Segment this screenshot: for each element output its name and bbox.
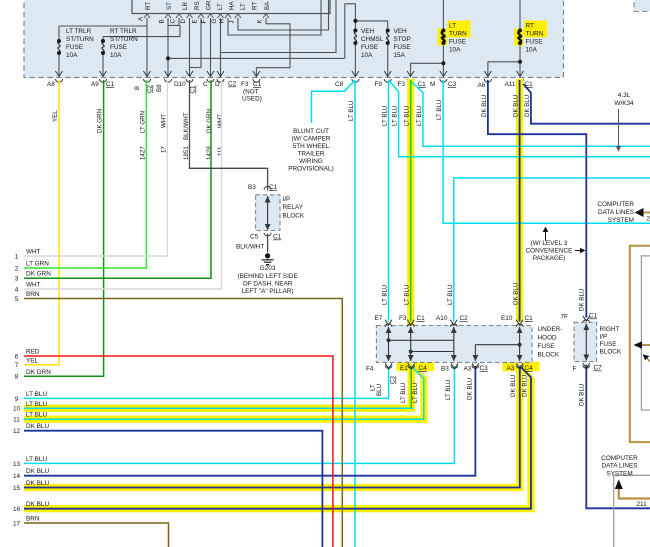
underhood fuse block internal arrowheads xyxy=(386,327,523,362)
wire DK BLU row 12 down off page bottom xyxy=(24,431,322,547)
rotated wire color labels, top section xyxy=(52,95,531,160)
svg-text:17: 17 xyxy=(160,146,167,153)
small annotation arrow at module box corner xyxy=(646,358,650,362)
left row callout numbers xyxy=(13,253,21,527)
svg-text:F3: F3 xyxy=(398,81,406,88)
wire LT TURN fuse feed riser from image top xyxy=(442,0,444,31)
svg-text:211: 211 xyxy=(637,501,648,508)
svg-text:10A: 10A xyxy=(449,47,461,54)
svg-text:C2: C2 xyxy=(228,81,237,88)
svg-text:B8: B8 xyxy=(156,84,163,92)
wire BLK/WHT pin D10 to I/P relay block B3 xyxy=(190,80,268,191)
wire RED row 6 down off page bottom xyxy=(24,356,333,547)
svg-text:M: M xyxy=(430,81,435,88)
svg-text:LT BLU: LT BLU xyxy=(382,285,389,305)
svg-text:LT BLU: LT BLU xyxy=(26,401,47,408)
svg-text:COMPUTER: COMPUTER xyxy=(597,201,634,208)
svg-text:F3: F3 xyxy=(399,315,407,322)
svg-text:I/P: I/P xyxy=(283,196,291,203)
svg-text:BRN: BRN xyxy=(26,516,40,523)
turn/hazard switch box (top, cut off by image edge) xyxy=(132,0,330,14)
svg-text:RIGHT: RIGHT xyxy=(600,326,620,333)
blunt cut annotation text xyxy=(288,128,333,173)
svg-text:DK BLU: DK BLU xyxy=(524,95,531,117)
svg-text:C1: C1 xyxy=(253,81,262,88)
svg-text:CHMSL: CHMSL xyxy=(361,36,384,43)
right I/P fuse block pin arrowhead and half-circle bottom xyxy=(583,363,590,369)
svg-text:3: 3 xyxy=(15,276,19,283)
highlight band E1 column to row 10 xyxy=(408,366,415,412)
svg-text:B3: B3 xyxy=(441,366,449,373)
svg-text:RED: RED xyxy=(26,349,40,356)
svg-text:A10: A10 xyxy=(436,315,448,322)
svg-text:WHT: WHT xyxy=(160,114,167,128)
wire stop-feed bus from pin B junction to right riser xyxy=(168,57,345,59)
highlighted label RT TURN FUSE xyxy=(524,21,547,38)
wire BRN row 5 down off page bottom xyxy=(24,299,342,547)
svg-text:E10: E10 xyxy=(501,315,513,322)
highlight band A3 branch column to row 16 xyxy=(527,378,534,512)
svg-text:COMPUTER: COMPUTER xyxy=(601,455,638,462)
svg-text:G: G xyxy=(211,19,218,24)
svg-text:LT BLU: LT BLU xyxy=(348,101,355,121)
svg-text:DK BLU: DK BLU xyxy=(522,375,529,397)
ground G203 symbol xyxy=(262,253,274,264)
yellow highlighter bands xyxy=(24,79,540,512)
svg-text:D: D xyxy=(180,19,187,24)
svg-text:C1: C1 xyxy=(417,315,426,322)
highlighted fuse element LT TURN FUSE (bold, yellow marker) xyxy=(438,29,448,46)
wire stop-feed riser to VEH CHMSL / VEH STOP fuses xyxy=(345,4,356,59)
wire DK BLU underhood A3/C3 to row 14 xyxy=(24,366,475,476)
svg-text:J: J xyxy=(229,20,236,23)
svg-text:DK BLU: DK BLU xyxy=(578,384,585,406)
fuse element VEH STOP FUSE 15A xyxy=(387,31,389,44)
wire switch pin D down to connector pin D10 (ground) xyxy=(189,18,191,76)
svg-text:C3: C3 xyxy=(390,376,397,384)
wire LT BLU from pin C8 down entire page xyxy=(354,80,356,547)
svg-text:BLOCK: BLOCK xyxy=(600,349,622,356)
svg-text:DK GRN: DK GRN xyxy=(26,271,51,278)
svg-text:C3: C3 xyxy=(480,365,489,372)
fuse element RT TRLR ST/TURN FUSE 10A xyxy=(102,41,104,53)
svg-text:FUSE: FUSE xyxy=(600,341,617,348)
svg-text:GR: GR xyxy=(206,0,213,10)
svg-text:FUSE: FUSE xyxy=(361,44,378,51)
svg-text:F: F xyxy=(201,20,208,24)
junction dot RT TURN fuse output xyxy=(518,60,522,64)
bottom edge connector half-circles xyxy=(385,365,392,368)
svg-text:(NOT: (NOT xyxy=(243,89,259,96)
fuse element LT TRLR ST/TURN FUSE 10A xyxy=(58,31,389,54)
svg-text:E: E xyxy=(192,19,199,23)
svg-text:ST/TURN: ST/TURN xyxy=(110,36,138,43)
wire switch pin H up-and-over riser to image top xyxy=(228,0,321,35)
svg-text:LT TRLR: LT TRLR xyxy=(66,28,92,35)
svg-text:USED): USED) xyxy=(242,96,262,103)
svg-text:E7: E7 xyxy=(375,315,383,322)
svg-text:A6: A6 xyxy=(478,82,486,89)
svg-text:DK BLU: DK BLU xyxy=(26,480,49,487)
switch box rotated pin-name label stubs (cut off at top) xyxy=(145,0,271,10)
svg-text:LT: LT xyxy=(240,3,247,10)
wire DK GRN pin C to row 3 xyxy=(24,80,211,278)
wire BRN row 17 down off page bottom xyxy=(24,523,169,547)
wire LT BLU pin F9 to underhood E7 xyxy=(388,80,390,322)
connector half-circle symbols below boundary xyxy=(56,79,63,82)
svg-text:C2: C2 xyxy=(147,85,154,93)
I/P relay block bottom connector labels C5 / C1 xyxy=(250,234,282,241)
svg-text:D10: D10 xyxy=(174,81,186,88)
svg-text:C1: C1 xyxy=(525,315,534,322)
w/ level 3 convenience package annotation xyxy=(526,240,573,262)
wire LT BLU (appears green under highlighter) underhood E1 down to row 10 xyxy=(410,366,412,408)
svg-text:FUSE: FUSE xyxy=(526,39,543,46)
svg-text:LT BLU: LT BLU xyxy=(445,380,452,400)
svg-text:DK BLU: DK BLU xyxy=(26,468,49,475)
svg-text:YEL: YEL xyxy=(26,357,39,364)
wire DK BLU underhood A3 branch to row 16 (highlighted) xyxy=(24,366,531,509)
svg-text:HOOD: HOOD xyxy=(538,335,558,342)
svg-text:LT BLU: LT BLU xyxy=(447,285,454,305)
svg-text:12: 12 xyxy=(13,428,21,435)
svg-text:13: 13 xyxy=(13,461,21,468)
svg-text:LEFT "A" PILLAR): LEFT "A" PILLAR) xyxy=(242,288,294,295)
connector pin name labels below dashed boundary xyxy=(47,81,533,103)
wire switch pin B down to connector pin B8 xyxy=(167,18,169,76)
svg-text:RT TRLR: RT TRLR xyxy=(110,28,137,35)
wire VEH CHMSL fuse feed to VEH STOP fuse feed xyxy=(355,20,387,22)
svg-text:FUSE: FUSE xyxy=(66,44,83,51)
wire DK GRN pin A9 to row 8 xyxy=(24,80,104,376)
svg-text:OF DASH. NEAR: OF DASH. NEAR xyxy=(243,281,293,288)
svg-text:LT BLU: LT BLU xyxy=(26,391,47,398)
svg-text:ST/TURN: ST/TURN xyxy=(66,36,94,43)
svg-text:C8: C8 xyxy=(335,81,344,88)
svg-text:RT: RT xyxy=(145,2,152,10)
svg-text:FUSE: FUSE xyxy=(538,343,555,350)
svg-text:FUSE: FUSE xyxy=(110,44,127,51)
wire RT TRLR fuse leads: feed from pin C jog, output to pin A9 xyxy=(102,37,104,76)
svg-text:DK GRN: DK GRN xyxy=(26,369,51,376)
underhood fuse block name xyxy=(538,326,563,359)
wire switch pin C jog to RT TRLR fuse xyxy=(103,18,180,37)
svg-text:1428: 1428 xyxy=(206,146,213,160)
right I/P fuse block name xyxy=(600,326,622,356)
bottom edge pin arrowheads leaving block xyxy=(385,363,392,369)
svg-text:DK BLU: DK BLU xyxy=(578,289,585,311)
wire WHT pin B8 to row 1 xyxy=(24,80,167,256)
svg-text:A9: A9 xyxy=(91,81,99,88)
svg-text:C: C xyxy=(170,19,177,24)
svg-text:F: F xyxy=(573,366,577,373)
svg-text:C5: C5 xyxy=(250,234,259,241)
svg-text:C7: C7 xyxy=(594,365,603,372)
svg-text:C1: C1 xyxy=(273,234,282,241)
svg-text:PACKAGE): PACKAGE) xyxy=(533,255,566,262)
highlight band F3 LT BLU column xyxy=(407,79,414,326)
svg-text:5TH WHEEL: 5TH WHEEL xyxy=(293,143,330,150)
right I/P fuse block internal wire with arrows xyxy=(585,324,587,361)
wire LT BLU blunt cut branch from pin C8 xyxy=(312,80,356,123)
svg-text:LT BLU: LT BLU xyxy=(436,100,443,120)
wire switch pin A down to connector pin B xyxy=(146,18,148,76)
svg-text:RS: RS xyxy=(194,1,201,10)
highlighted fuse element RT TURN FUSE (bold, yellow marker) xyxy=(514,29,524,46)
svg-text:HA: HA xyxy=(229,1,236,10)
svg-text:10A: 10A xyxy=(110,52,122,59)
svg-text:C2: C2 xyxy=(460,315,469,322)
svg-text:4.3L: 4.3L xyxy=(618,92,631,99)
svg-text:BRN: BRN xyxy=(26,291,40,298)
svg-text:LR: LR xyxy=(182,2,189,10)
svg-text:11: 11 xyxy=(13,417,20,424)
svg-text:I/P: I/P xyxy=(600,334,608,341)
svg-text:C1: C1 xyxy=(589,313,598,320)
small dashed box fragment top-right corner xyxy=(634,0,650,12)
left row wire color labels xyxy=(26,249,51,523)
svg-text:10A: 10A xyxy=(66,52,78,59)
wire switch pin G down to connector pin D xyxy=(220,18,222,76)
wire BLK/WHT I/P relay block C5 to ground G203 xyxy=(267,234,269,253)
switch connector pin letters A-K (rotated) xyxy=(138,16,264,24)
I/P relay block connector half-circle bottom xyxy=(264,233,271,236)
underhood fuse block pin arrowheads entering top edge xyxy=(385,320,523,369)
svg-text:LT BLU: LT BLU xyxy=(412,383,419,403)
wire LT BLU underhood E1 to row 10 horizontal run (highlighted) xyxy=(24,407,413,409)
svg-text:111: 111 xyxy=(217,146,224,156)
svg-text:SYSTEM: SYSTEM xyxy=(606,471,632,478)
svg-text:C4: C4 xyxy=(419,365,428,372)
fuse name labels xyxy=(66,21,547,60)
gray module box inside tan box xyxy=(641,256,650,410)
top edge connector half-circles xyxy=(385,324,392,327)
svg-text:C: C xyxy=(203,81,208,88)
fuse terminal dots xyxy=(57,19,522,65)
tan system boundary box right edge xyxy=(630,246,650,442)
wire switch pin F down to connector pin C xyxy=(210,18,212,76)
svg-text:DK BLU: DK BLU xyxy=(467,378,474,400)
svg-text:BLOCK: BLOCK xyxy=(283,213,305,220)
right I/P fuse block bottom labels F / C7 xyxy=(573,365,603,373)
I/P relay block dashed box xyxy=(256,195,280,231)
svg-text:W/K34: W/K34 xyxy=(614,100,634,107)
junction dot CHMSL/STOP fuse feed xyxy=(353,19,357,23)
svg-text:(BEHIND LEFT SIDE: (BEHIND LEFT SIDE xyxy=(237,273,297,280)
svg-text:DATA LINES: DATA LINES xyxy=(602,463,638,470)
svg-text:C1: C1 xyxy=(418,81,427,88)
svg-text:2: 2 xyxy=(15,265,19,272)
wire LT GRN pin B to row 2 xyxy=(24,80,146,268)
underhood fuse block top pin labels xyxy=(375,315,534,322)
svg-text:7F: 7F xyxy=(561,314,569,321)
svg-text:LT BLU: LT BLU xyxy=(26,412,47,419)
svg-text:LT GRN: LT GRN xyxy=(139,111,146,133)
svg-text:DK GRN: DK GRN xyxy=(206,109,213,133)
svg-text:LT BLU: LT BLU xyxy=(404,106,411,126)
svg-text:H: H xyxy=(219,19,226,23)
svg-text:DK BLU: DK BLU xyxy=(481,95,488,117)
svg-text:B: B xyxy=(134,86,141,90)
svg-text:FUSE: FUSE xyxy=(449,39,466,46)
wire switch pin J riser to image top xyxy=(238,0,329,30)
underhood fuse block internal bus wires xyxy=(389,327,520,361)
wire WHT pin D to row 4 xyxy=(24,80,222,289)
svg-text:DK GRN: DK GRN xyxy=(97,109,104,133)
svg-text:(W/ CAMPER: (W/ CAMPER xyxy=(291,136,330,143)
wire LT BLU pin M to right edge (w/ level 3 convenience) xyxy=(443,80,650,223)
wire DK BLU right I/P fuse block F/C7 down and right to edge (circuit 211) xyxy=(586,365,650,509)
junction dot stop-feed bus at pin B xyxy=(166,56,170,60)
right I/P fuse block dashed box xyxy=(574,322,597,361)
svg-text:RELAY: RELAY xyxy=(283,204,304,211)
svg-text:BLK/WHT: BLK/WHT xyxy=(236,244,265,251)
svg-text:LT: LT xyxy=(217,3,224,10)
svg-text:STOP: STOP xyxy=(394,36,411,43)
svg-text:LT BLU: LT BLU xyxy=(404,285,411,305)
svg-text:LT BLU: LT BLU xyxy=(392,106,399,126)
switch box pin arrowheads (pointing up into box bottom edge) xyxy=(144,14,269,18)
svg-text:8: 8 xyxy=(15,374,19,381)
highlight boxes on connector labels E1 C4 xyxy=(397,362,413,371)
svg-text:A8: A8 xyxy=(47,81,55,88)
svg-text:LT BLU: LT BLU xyxy=(416,106,423,126)
wire DK BLU underhood A3 to row 15 (highlighted) xyxy=(24,366,520,488)
I/P relay block connector labels B3 / C1 xyxy=(248,184,278,191)
svg-text:1: 1 xyxy=(15,253,19,260)
wire VEH CHMSL fuse element leads and output to pin C8 xyxy=(354,21,356,76)
svg-text:DATA LINES: DATA LINES xyxy=(598,209,634,216)
svg-text:PROVISIONAL): PROVISIONAL) xyxy=(288,166,333,173)
svg-text:LT BLU: LT BLU xyxy=(26,456,47,463)
svg-text:VEH: VEH xyxy=(361,28,375,35)
svg-text:DK BLU: DK BLU xyxy=(513,95,520,117)
svg-text:2: 2 xyxy=(647,216,650,223)
svg-text:BLU: BLU xyxy=(376,384,383,396)
svg-text:BLUNT CUT: BLUNT CUT xyxy=(293,128,329,135)
I/P relay block internal wire with arrows xyxy=(267,196,269,230)
svg-text:DK BLU: DK BLU xyxy=(26,423,49,430)
svg-text:DK BLU: DK BLU xyxy=(26,501,49,508)
wire switch pin K route to connector pin F3 (not used) xyxy=(256,18,290,76)
wire DK BLU pin A11 to underhood E10 (highlighted) xyxy=(519,80,521,322)
svg-text:C1: C1 xyxy=(106,81,115,88)
underhood fuse block bottom pin labels xyxy=(366,365,533,384)
svg-text:17: 17 xyxy=(13,520,21,527)
svg-text:F4: F4 xyxy=(366,366,374,373)
svg-text:UNDER-: UNDER- xyxy=(538,326,563,333)
underhood fuse block dashed box xyxy=(376,326,532,363)
wire pin A to LT TRLR fuse xyxy=(59,25,147,27)
svg-text:(W/ LEVEL 3: (W/ LEVEL 3 xyxy=(531,240,568,247)
wire LT BLU underhood F4 to row 9 xyxy=(24,366,389,398)
svg-text:D: D xyxy=(215,81,220,88)
wire LT BLU underhood E1 branch to row 11 (highlighted) xyxy=(24,366,424,419)
I/P relay block name text xyxy=(283,196,305,220)
svg-text:WHT: WHT xyxy=(26,249,41,256)
svg-text:A3: A3 xyxy=(464,366,472,373)
svg-text:WHT: WHT xyxy=(217,114,224,128)
wire VEH STOP fuse leads and output to pin F9 xyxy=(387,21,389,76)
svg-text:E1: E1 xyxy=(400,365,408,372)
highlight band A11 DK BLU column xyxy=(516,79,523,322)
svg-text:6: 6 xyxy=(15,353,19,360)
wire LT BLU (appears green under highlighter) pin F3 to underhood F3 xyxy=(410,80,412,322)
wire LT TURN fuse output to pins F3 and M xyxy=(411,43,444,76)
svg-text:5: 5 xyxy=(15,296,19,303)
svg-text:F3: F3 xyxy=(241,81,249,88)
svg-text:ST: ST xyxy=(166,2,173,10)
svg-text:7: 7 xyxy=(15,362,19,369)
svg-text:C4: C4 xyxy=(525,365,534,372)
svg-text:DK BLU: DK BLU xyxy=(513,283,520,305)
svg-text:B3: B3 xyxy=(248,184,256,191)
svg-text:14: 14 xyxy=(13,473,21,480)
svg-text:TURN: TURN xyxy=(449,31,467,38)
highlighted label LT TURN FUSE xyxy=(448,21,471,38)
svg-text:RT: RT xyxy=(252,2,259,10)
svg-text:15: 15 xyxy=(13,485,21,492)
svg-text:WIRING: WIRING xyxy=(299,158,323,165)
svg-text:VEH: VEH xyxy=(394,28,408,35)
highlight band E1 branch column to row 11 xyxy=(420,376,427,423)
svg-text:WHT: WHT xyxy=(26,282,41,289)
svg-text:TURN: TURN xyxy=(526,31,544,38)
4.3L W/K34 annotation with arrow xyxy=(614,92,634,107)
rotated DK BLU labels on right I/P fuse block wire xyxy=(578,289,585,406)
svg-text:LT BLU: LT BLU xyxy=(400,383,407,403)
svg-text:10A: 10A xyxy=(361,52,373,59)
svg-text:G203: G203 xyxy=(260,265,276,272)
svg-text:BA: BA xyxy=(264,1,271,10)
wire RT TURN fuse feed riser from image top xyxy=(519,0,521,31)
wire LT TRLR fuse leads: feed from pin A, output to pin A8 xyxy=(58,26,60,76)
svg-text:YEL: YEL xyxy=(52,110,59,122)
svg-text:LT BLU: LT BLU xyxy=(382,106,389,126)
connector pin arrowheads leaving dashed boundary xyxy=(56,71,524,82)
computer data lines system callout (upper) xyxy=(597,201,634,224)
right I/P fuse block top labels 7F / C1 xyxy=(561,313,598,321)
wire riser from image top joining pin G/D wire xyxy=(221,0,337,53)
svg-text:TRAILER: TRAILER xyxy=(298,151,325,158)
svg-text:15A: 15A xyxy=(394,52,406,59)
gray module box bottom right corner xyxy=(614,475,650,547)
wire DK BLU pin A6 over to right I/P fuse block 7F xyxy=(488,80,586,318)
underhood fuse block internal junction dots xyxy=(387,338,391,342)
svg-text:A3: A3 xyxy=(507,365,515,372)
wire YEL pin A8 to row 7 xyxy=(24,80,59,365)
svg-text:4: 4 xyxy=(15,286,19,293)
DK BLU wires xyxy=(24,80,650,509)
svg-text:C1: C1 xyxy=(190,85,197,93)
svg-text:BLOCK: BLOCK xyxy=(538,352,560,359)
fuse element VEH CHMSL FUSE 10A xyxy=(354,31,356,44)
instrument panel dashed boundary border xyxy=(24,0,564,78)
wire RT TURN fuse output to pins A11 and A6 xyxy=(488,43,520,76)
wire switch pin E ground tie into D10 wire xyxy=(190,18,202,68)
computer data lines system callout (lower) xyxy=(601,455,638,478)
svg-text:1427: 1427 xyxy=(139,146,146,160)
wire DK BLU branch from pin A11/C1 to right edge xyxy=(523,84,650,124)
svg-text:9: 9 xyxy=(15,396,19,403)
svg-text:16: 16 xyxy=(13,506,21,513)
wire LT BLU from right edge down to underhood A10 xyxy=(454,178,650,322)
svg-text:C3: C3 xyxy=(448,81,457,88)
svg-text:F9: F9 xyxy=(375,81,383,88)
svg-text:LT: LT xyxy=(449,23,456,30)
svg-text:10A: 10A xyxy=(526,47,538,54)
svg-text:FUSE: FUSE xyxy=(394,44,411,51)
